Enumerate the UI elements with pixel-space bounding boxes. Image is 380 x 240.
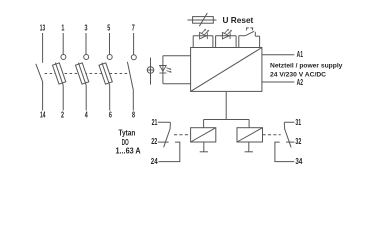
wire 22 — [158, 141, 169, 143]
wire 34 — [275, 142, 294, 162]
wire to terminal 14 — [42, 82, 44, 111]
svg-text:1: 1 — [61, 24, 64, 33]
ground stub under K2 — [245, 142, 253, 152]
push button actuator cap — [247, 28, 249, 31]
svg-text:14: 14 — [40, 111, 46, 120]
svg-text:24 V/230 V AC/DC: 24 V/230 V AC/DC — [270, 71, 326, 78]
fuse-disconnector F3 (5-6) — [98, 33, 113, 111]
wire drop to K2 — [248, 120, 250, 128]
mechanical coupling dashed line — [45, 73, 129, 75]
svg-text:31: 31 — [295, 118, 301, 127]
wire 32 — [286, 141, 294, 143]
push button blade — [245, 31, 254, 35]
LED module box on left of power supply — [163, 56, 191, 84]
svg-text:U Reset: U Reset — [223, 15, 254, 25]
svg-text:Netzteil / power supply: Netzteil / power supply — [270, 63, 343, 70]
svg-text:Tytan: Tytan — [119, 129, 136, 138]
wire to terminal 8 — [132, 90, 134, 111]
ground stub under K1 — [200, 142, 208, 152]
fuse-disconnector F2 (3-4) — [75, 33, 90, 111]
svg-text:32: 32 — [295, 137, 301, 146]
wire A2 — [262, 81, 294, 83]
wire from terminal 5 — [109, 33, 111, 55]
junction T bar wire — [204, 119, 250, 121]
dashed actuating link K1 to contact 21-22-24 — [174, 134, 191, 136]
fixed contact circle F2 — [84, 55, 89, 60]
svg-text:4: 4 — [85, 111, 88, 120]
power supply box U1 — [191, 48, 262, 92]
LED D2 — [222, 29, 232, 39]
fixed contact circle 7 — [131, 55, 136, 60]
reset push button S1 box on top of power supply — [239, 28, 260, 48]
relay coil K1 — [191, 128, 216, 142]
fuse-disconnector F1 (1-2) — [52, 33, 67, 111]
LED D3 (front panel, pointing down) — [159, 66, 172, 74]
lamp circle — [147, 67, 154, 74]
wire 31 and contact blade — [284, 122, 294, 147]
push button fixed contact — [254, 32, 256, 36]
svg-text:13: 13 — [40, 24, 46, 33]
fuse cartridge F3 — [98, 61, 113, 86]
wire 21 and contact blade — [158, 122, 171, 147]
wire from terminal 3 — [85, 33, 87, 55]
wire from terminal 1 — [62, 33, 64, 55]
svg-text:A1: A1 — [297, 50, 304, 59]
svg-text:8: 8 — [132, 111, 135, 120]
fixed contact circle F3 — [107, 55, 112, 60]
switch blade 7-8 — [127, 62, 133, 90]
indicator box 1 on top of power supply — [193, 36, 213, 48]
wire 24 — [159, 142, 180, 162]
svg-text:A2: A2 — [297, 78, 304, 87]
svg-text:22: 22 — [151, 137, 157, 146]
changeover contact 31-32-34 — [275, 122, 295, 161]
svg-text:DO: DO — [122, 138, 129, 147]
svg-text:2: 2 — [61, 111, 64, 120]
fuse cartridge F1 — [52, 61, 67, 86]
wire to terminal 2 — [62, 85, 64, 110]
svg-text:7: 7 — [132, 24, 135, 33]
indicator lamp H1 — [147, 58, 154, 85]
changeover contact 21-22-24 — [158, 122, 180, 161]
wire from terminal 13 — [42, 33, 44, 63]
svg-text:6: 6 — [109, 111, 112, 120]
fuse cartridge F2 — [75, 61, 90, 86]
relay coil K2 — [237, 128, 263, 142]
LED D1 — [200, 29, 210, 39]
wire to terminal 4 — [85, 85, 87, 110]
vertical feed wire — [225, 91, 227, 119]
lamp wire — [150, 58, 152, 85]
switch blade 13-14 — [36, 64, 43, 82]
switch contact Q2 (7-8) — [127, 33, 136, 111]
fixed contact circle F1 — [61, 55, 66, 60]
wire to terminal 6 — [109, 85, 111, 110]
svg-text:5: 5 — [107, 24, 110, 33]
svg-text:21: 21 — [152, 118, 158, 127]
wire from terminal 7 — [133, 33, 135, 55]
U Reset electronic fuse symbol — [188, 13, 217, 26]
svg-text:3: 3 — [85, 24, 88, 33]
wire A1 — [262, 54, 294, 56]
svg-text:1...63 A: 1...63 A — [116, 147, 141, 156]
switch contact Q1 (13-14) — [36, 33, 43, 111]
svg-text:34: 34 — [295, 157, 302, 166]
dashed actuating link K2 to contact 31-32-34 — [263, 134, 281, 136]
wire from power supply to relay coils — [204, 91, 250, 127]
lamp cross bar — [147, 69, 154, 71]
wire drop to K1 — [203, 120, 205, 128]
indicator box 2 on top of power supply — [216, 36, 237, 48]
svg-text:24: 24 — [151, 157, 158, 166]
